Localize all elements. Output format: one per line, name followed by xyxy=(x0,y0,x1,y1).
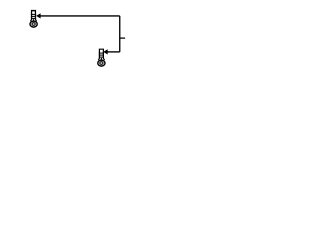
screw terminal TP2 xyxy=(98,49,105,67)
background xyxy=(0,0,150,77)
TP2 threaded shaft xyxy=(99,52,104,59)
TP2 head (flat tip cap) xyxy=(99,49,104,52)
wire: right vertical segment xyxy=(119,16,121,52)
TP1 flare (shaft-to-head taper) xyxy=(30,19,36,21)
screw terminal TP1 xyxy=(30,10,37,27)
TP1 head slot xyxy=(32,23,35,26)
stub node on vertical wire xyxy=(120,37,125,39)
TP2 circular screw head xyxy=(98,60,105,66)
TP2 flare (shaft-to-head taper) xyxy=(98,58,104,60)
TP1 threaded shaft xyxy=(31,13,36,20)
arrow pointing at TP1 xyxy=(36,13,41,18)
TP2 head slot xyxy=(100,62,103,65)
TP1 circular screw head xyxy=(30,21,37,27)
wire: bottom horizontal segment xyxy=(107,51,120,53)
wire: top horizontal segment xyxy=(40,15,120,17)
arrow pointing at TP2 xyxy=(103,49,108,54)
TP1 head (flat tip cap) xyxy=(31,10,36,13)
